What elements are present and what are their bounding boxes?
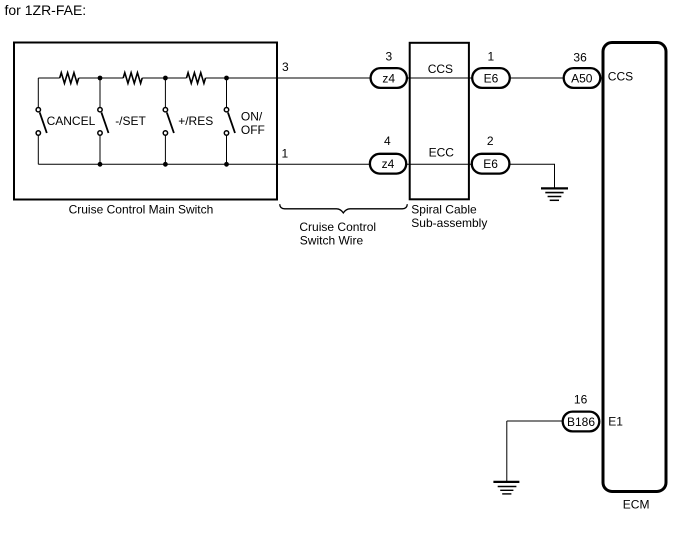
svg-text:+/RES: +/RES (178, 114, 213, 128)
svg-text:1: 1 (281, 147, 288, 161)
svg-text:36: 36 (573, 50, 587, 64)
svg-text:ECC: ECC (429, 146, 455, 160)
svg-text:3: 3 (385, 49, 392, 63)
svg-text:z4: z4 (382, 157, 395, 171)
svg-text:for 1ZR-FAE:: for 1ZR-FAE: (5, 2, 87, 18)
svg-text:Cruise Control Main Switch: Cruise Control Main Switch (69, 202, 214, 216)
svg-text:CCS: CCS (608, 70, 633, 84)
svg-text:ON/: ON/ (241, 109, 263, 123)
svg-text:CANCEL: CANCEL (47, 114, 96, 128)
svg-text:E6: E6 (483, 157, 498, 171)
svg-text:Spiral Cable: Spiral Cable (411, 203, 477, 217)
svg-text:1: 1 (487, 49, 494, 63)
svg-text:z4: z4 (382, 71, 395, 85)
svg-text:OFF: OFF (241, 123, 265, 137)
svg-text:2: 2 (487, 134, 494, 148)
svg-text:B186: B186 (567, 415, 595, 429)
svg-text:-/SET: -/SET (115, 114, 146, 128)
svg-text:E6: E6 (484, 71, 499, 85)
svg-text:Switch Wire: Switch Wire (300, 233, 364, 247)
svg-text:ECM: ECM (623, 498, 650, 512)
svg-text:Sub-assembly: Sub-assembly (411, 216, 487, 230)
svg-text:A50: A50 (571, 71, 593, 85)
svg-text:Cruise Control: Cruise Control (299, 220, 376, 234)
svg-text:4: 4 (384, 134, 391, 148)
svg-text:E1: E1 (608, 414, 623, 428)
svg-text:CCS: CCS (428, 62, 453, 76)
svg-text:3: 3 (282, 60, 289, 74)
svg-text:16: 16 (574, 393, 588, 407)
